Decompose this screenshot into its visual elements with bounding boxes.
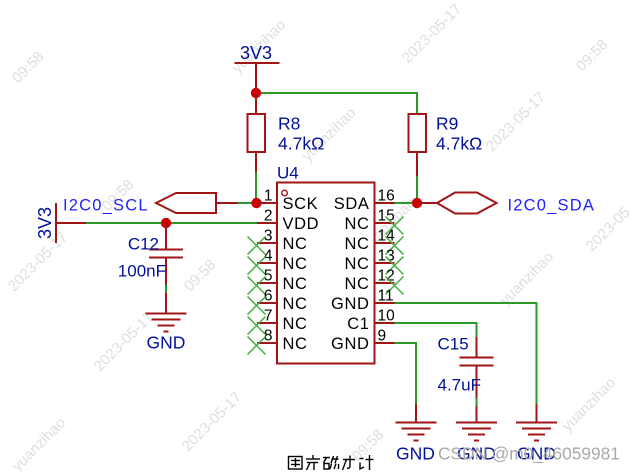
svg-text:16: 16 <box>378 188 395 205</box>
svg-text:NC: NC <box>344 235 369 253</box>
svg-text:GND: GND <box>147 333 186 353</box>
svg-text:yuanzihao: yuanzihao <box>497 248 557 308</box>
IC U4 body <box>277 183 375 364</box>
svg-text:09:58: 09:58 <box>181 256 220 295</box>
pin 7 NC <box>257 322 277 324</box>
svg-text:12: 12 <box>378 268 395 285</box>
pin 2 VDD <box>257 222 277 224</box>
svg-text:2023-05-17: 2023-05-17 <box>0 159 5 225</box>
svg-text:SDA: SDA <box>334 195 370 213</box>
ground (C15) <box>456 423 497 441</box>
no-connect X pin3 <box>248 237 266 255</box>
no-connect X pin6 <box>248 297 266 315</box>
svg-text:4: 4 <box>264 248 273 265</box>
no-connect X pin7 <box>248 317 266 335</box>
pin 14 NC <box>375 242 395 244</box>
resistor R8 <box>248 93 266 172</box>
svg-text:7: 7 <box>264 308 273 325</box>
char CI <box>323 457 330 459</box>
pin 6 NC <box>257 302 277 304</box>
pin 15 NC <box>375 222 395 224</box>
no-connect X pin8 <box>248 337 266 355</box>
svg-text:U4: U4 <box>277 164 299 183</box>
svg-text:CSDN @m0_46059981: CSDN @m0_46059981 <box>438 444 620 464</box>
wire: 3V3 to VDD pin2 (green) <box>86 222 257 224</box>
svg-text:I2C0_SDA: I2C0_SDA <box>508 197 596 215</box>
wire: pin10 to C15 <box>395 323 477 338</box>
pin 5 NC <box>257 282 277 284</box>
wire: pin11 GND net <box>395 303 537 404</box>
pin 9 GND <box>375 342 395 344</box>
ground (under C12) <box>146 314 187 332</box>
port I2C0_SDA <box>437 193 497 214</box>
junction at 3V3 rail <box>251 88 261 98</box>
wire: pin16 to port SDA <box>395 202 415 204</box>
svg-text:14: 14 <box>378 228 396 245</box>
svg-text:R9: R9 <box>436 114 458 134</box>
svg-text:6: 6 <box>264 288 273 305</box>
wire: R9 to pin16 net (green) <box>416 176 418 203</box>
svg-text:4.7kΩ: 4.7kΩ <box>436 134 482 154</box>
wire: R8 to pin1 net (green) <box>255 172 257 203</box>
svg-text:GND: GND <box>331 335 369 353</box>
pin 16 SDA <box>375 202 395 204</box>
port I2C0_SCL <box>156 193 240 213</box>
wire: port SCL to pin1 <box>238 202 254 204</box>
svg-text:NC: NC <box>283 235 308 253</box>
svg-text:C15: C15 <box>438 335 469 354</box>
pin 1 SCK <box>257 202 277 204</box>
svg-text:yuanzihao: yuanzihao <box>559 374 619 434</box>
resistor R9 <box>409 114 427 176</box>
svg-text:NC: NC <box>283 295 308 313</box>
svg-text:GND: GND <box>396 444 435 464</box>
junction at pin16 <box>412 198 422 208</box>
svg-text:C1: C1 <box>347 315 369 333</box>
title text (drawn CJK strokes) <box>289 455 374 470</box>
power symbol 3V3 (left, rotated) <box>56 203 86 243</box>
svg-text:2023-05-17: 2023-05-17 <box>483 89 549 155</box>
svg-text:4.7kΩ: 4.7kΩ <box>278 134 324 154</box>
no-connect X pin4 <box>248 257 266 275</box>
ground (pin11 net) <box>516 423 557 441</box>
char JI <box>360 458 364 460</box>
svg-text:GND: GND <box>331 295 369 313</box>
power symbol 3V3 (top) <box>235 63 280 93</box>
wire: C12 to GND (green bit) <box>165 285 167 293</box>
svg-text:SCK: SCK <box>283 195 319 213</box>
pin 12 NC <box>375 282 395 284</box>
svg-text:09:58: 09:58 <box>573 36 612 75</box>
svg-text:13: 13 <box>378 248 395 265</box>
svg-text:NC: NC <box>283 335 308 353</box>
char CHAN <box>306 458 320 460</box>
char GUO <box>289 457 303 470</box>
wire: top rail to R9 (green) <box>256 92 417 114</box>
svg-text:yuanzihao: yuanzihao <box>9 414 69 472</box>
svg-text:NC: NC <box>344 215 369 233</box>
svg-text:15: 15 <box>378 208 395 225</box>
svg-text:3V3: 3V3 <box>240 43 272 63</box>
no-connect X pin15 <box>386 217 404 235</box>
svg-text:1: 1 <box>264 188 273 205</box>
svg-text:NC: NC <box>283 255 308 273</box>
capacitor C12 <box>149 225 183 285</box>
svg-text:11: 11 <box>378 288 394 305</box>
pin 4 NC <box>257 262 277 264</box>
svg-text:100nF: 100nF <box>118 262 166 281</box>
svg-text:NC: NC <box>344 275 369 293</box>
svg-text:3: 3 <box>264 228 273 245</box>
no-connect X pin5 <box>248 277 266 295</box>
svg-text:R8: R8 <box>278 114 300 134</box>
pin 11 GND <box>375 302 395 304</box>
svg-text:5: 5 <box>264 268 273 285</box>
svg-text:09:58: 09:58 <box>9 48 48 87</box>
svg-text:4.7uF: 4.7uF <box>438 376 481 395</box>
svg-text:3V3: 3V3 <box>35 207 55 239</box>
no-connect X pin13 <box>386 257 404 275</box>
capacitor C15 <box>460 337 494 398</box>
svg-text:2023-05-17: 2023-05-17 <box>179 389 245 455</box>
ground (pin9 net) <box>396 423 437 441</box>
junction at C12 <box>161 218 171 228</box>
svg-text:I2C0_SCL: I2C0_SCL <box>63 197 149 215</box>
svg-text:10: 10 <box>378 308 396 325</box>
svg-text:NC: NC <box>283 275 308 293</box>
svg-text:2023-05-17: 2023-05-17 <box>399 1 465 67</box>
svg-text:8: 8 <box>264 328 273 345</box>
pin-1 marker dot <box>282 190 288 196</box>
svg-text:2: 2 <box>264 208 273 225</box>
char LI <box>343 459 355 461</box>
no-connect X pin14 <box>386 237 404 255</box>
pin 8 NC <box>257 342 277 344</box>
pin 3 NC <box>257 242 277 244</box>
svg-text:VDD: VDD <box>283 215 320 233</box>
junction at pin1 <box>251 198 261 208</box>
wire: pin9 GND net <box>395 343 417 404</box>
no-connect X pin12 <box>386 277 404 295</box>
svg-text:9: 9 <box>378 328 387 345</box>
svg-text:NC: NC <box>344 255 369 273</box>
pin 10 C1 <box>375 322 395 324</box>
svg-text:NC: NC <box>283 315 308 333</box>
pin 13 NC <box>375 262 395 264</box>
svg-text:C12: C12 <box>128 235 159 254</box>
